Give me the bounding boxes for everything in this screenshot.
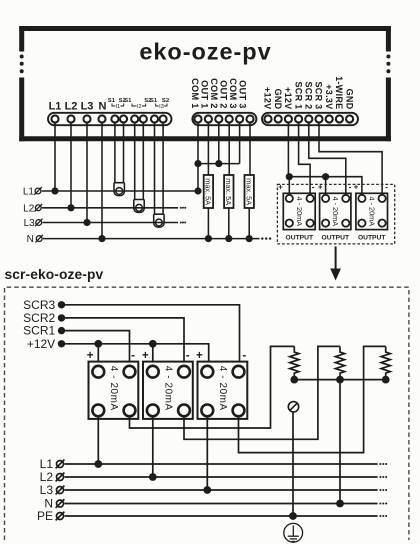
svg-text:L2: L2 bbox=[23, 203, 35, 214]
svg-text:max. 5A: max. 5A bbox=[224, 178, 233, 205]
svg-text:+3.3V: +3.3V bbox=[324, 84, 334, 109]
svg-text:COM 3: COM 3 bbox=[228, 78, 238, 109]
wire phase line L3 bbox=[42, 222, 178, 224]
wire +12V to module B2 + bbox=[152, 344, 154, 372]
dashed box scr board bbox=[5, 287, 409, 540]
svg-text:S1: S1 bbox=[124, 98, 132, 104]
X3 terminals bbox=[264, 115, 353, 122]
X2 terminals bbox=[194, 115, 253, 122]
svg-text:GND: GND bbox=[344, 89, 354, 110]
svg-text:4 - 20mA: 4 - 20mA bbox=[331, 196, 340, 226]
current transformer CT1 bbox=[114, 183, 124, 196]
wire COM bus bbox=[198, 163, 240, 165]
svg-text:I2: I2 bbox=[137, 104, 142, 110]
svg-text:max. 5A: max. 5A bbox=[245, 178, 254, 205]
wire SCR2 to module B2 - bbox=[62, 318, 185, 372]
wire phase line L1 bbox=[42, 190, 198, 192]
wire SCR3 to module3 - bbox=[319, 122, 382, 198]
terminal strip X3 (power/SCR) bbox=[262, 113, 358, 125]
ground symbol bbox=[284, 523, 303, 542]
wire COM3 drop bbox=[239, 122, 241, 164]
svg-text:GND: GND bbox=[273, 89, 283, 110]
svg-text:PE: PE bbox=[37, 509, 53, 523]
fuse F3 max.5A bbox=[245, 175, 254, 208]
svg-text:SCR3: SCR3 bbox=[23, 298, 55, 312]
X1 terminals bbox=[51, 115, 166, 122]
current transformer CT2 bbox=[134, 200, 144, 213]
continuation dots bottom lines bbox=[379, 463, 387, 517]
wire fuse F2 to N bbox=[228, 208, 230, 239]
labels L1 L2 L3 N bbox=[49, 101, 107, 113]
svg-text:-: - bbox=[312, 183, 315, 192]
node L1 input bbox=[34, 187, 42, 195]
svg-text:+: + bbox=[354, 183, 359, 192]
wire L1 bottom line bbox=[65, 463, 378, 465]
junction dots resistor bus bbox=[290, 376, 389, 384]
svg-text:4 - 20mA: 4 - 20mA bbox=[162, 366, 173, 411]
labels S1 S2 bbox=[108, 98, 170, 104]
svg-text:SCR 3: SCR 3 bbox=[314, 81, 324, 109]
wire fuse F1 to N bbox=[207, 208, 209, 239]
svg-text:L3: L3 bbox=[40, 483, 54, 497]
svg-text:+: + bbox=[142, 350, 149, 362]
wire B3 to L3 bbox=[206, 416, 208, 490]
wire SCR3 to module B3 - bbox=[62, 305, 240, 372]
wire B2 out to resistor R2 bbox=[184, 346, 340, 439]
svg-text:SCR 1: SCR 1 bbox=[293, 81, 303, 109]
svg-text:+: + bbox=[318, 183, 323, 192]
wire L1 terminal drop bbox=[54, 122, 56, 191]
junction dots on phase lines bbox=[51, 187, 105, 242]
svg-text:eko-oze-pv: eko-oze-pv bbox=[139, 39, 271, 65]
wire L3 terminal drop bbox=[86, 122, 88, 223]
wire B1 out to resistor R1 bbox=[130, 346, 295, 428]
wire N bottom line bbox=[65, 503, 378, 505]
svg-text:L1: L1 bbox=[23, 187, 35, 198]
svg-text:OUT 3: OUT 3 bbox=[238, 80, 248, 109]
X2 vertical labels bbox=[190, 78, 248, 109]
wire L3 bottom line bbox=[65, 489, 378, 491]
wire N terminal drop bbox=[101, 122, 103, 239]
svg-text:-: - bbox=[242, 350, 246, 362]
output module M1 bbox=[283, 193, 315, 229]
svg-text:OUTPUT: OUTPUT bbox=[286, 235, 314, 242]
wire resistor bus to N bbox=[339, 380, 341, 504]
svg-text:+: + bbox=[196, 350, 203, 362]
module B2 4-20mA bbox=[143, 362, 193, 419]
dashed box OUTPUT modules bbox=[277, 184, 394, 244]
svg-text:OUTPUT: OUTPUT bbox=[358, 235, 386, 242]
fuse F1 max.5A bbox=[204, 175, 213, 208]
resistor R1 bbox=[290, 346, 299, 379]
junction dots +12V bus bbox=[286, 173, 330, 180]
svg-text:SCR 2: SCR 2 bbox=[304, 81, 314, 109]
wire L2 terminal drop bbox=[70, 122, 72, 208]
svg-text:OUTPUT: OUTPUT bbox=[322, 235, 350, 242]
wire S1/S2 drops CT2 bbox=[135, 122, 144, 200]
svg-text:4 - 20mA: 4 - 20mA bbox=[367, 196, 376, 226]
svg-text:4 - 20mA: 4 - 20mA bbox=[108, 366, 119, 411]
wire OUT2 to fuse F2 bbox=[228, 122, 230, 175]
svg-text:L3: L3 bbox=[81, 101, 94, 113]
wire fuse F3 to N bbox=[248, 208, 250, 239]
junction dots bottom lines bbox=[94, 460, 344, 520]
junction dots +12V bus bbox=[94, 340, 156, 348]
wire earth screw to PE bbox=[292, 412, 294, 516]
terminal strip X2 (COM/OUT) bbox=[192, 113, 256, 125]
wire OUT3 to fuse F3 bbox=[249, 122, 251, 175]
svg-text:COM 1: COM 1 bbox=[190, 78, 200, 109]
N continuation dots bbox=[261, 237, 271, 239]
svg-text:4 - 20mA: 4 - 20mA bbox=[295, 196, 304, 226]
svg-text:+12V: +12V bbox=[283, 87, 293, 109]
wire +12V to module2 + bbox=[325, 177, 327, 199]
left edge continuation dots bbox=[20, 55, 24, 74]
svg-text:L1: L1 bbox=[49, 101, 62, 113]
arrow to scr board bbox=[335, 246, 337, 271]
resistor R3 bbox=[381, 346, 390, 379]
svg-text:N: N bbox=[27, 234, 34, 245]
wire +12V drop and bus bbox=[288, 122, 362, 198]
wire phase line L2 bbox=[42, 207, 178, 209]
wire COM2 drop bbox=[218, 122, 220, 164]
svg-text:-: - bbox=[131, 350, 135, 362]
svg-text:1-WIRE: 1-WIRE bbox=[334, 76, 344, 109]
device outline eko-oze-pv bbox=[19, 26, 391, 141]
L2 continuation dots bbox=[180, 207, 186, 209]
wire +12V to module B1 + bbox=[97, 344, 99, 372]
svg-text:+: + bbox=[87, 350, 94, 362]
svg-text:OUT 2: OUT 2 bbox=[219, 80, 229, 109]
svg-text:L2: L2 bbox=[65, 101, 78, 113]
earth screw symbol bbox=[288, 402, 298, 412]
wire B2 to L2 bbox=[152, 416, 154, 477]
svg-text:COM 2: COM 2 bbox=[209, 78, 219, 109]
svg-text:S1: S1 bbox=[150, 98, 158, 104]
junction dots fuses to N bbox=[205, 235, 253, 242]
wire +12V bus to module B3 + bbox=[62, 344, 209, 372]
L3 continuation dots bbox=[180, 222, 186, 224]
node L2 input bbox=[35, 204, 43, 212]
svg-text:L2: L2 bbox=[40, 470, 54, 484]
wire +12V to module1 + bbox=[288, 177, 290, 199]
svg-text:SCR1: SCR1 bbox=[23, 324, 55, 338]
svg-text:L1: L1 bbox=[40, 457, 54, 471]
wire SCR2 to module2 - bbox=[309, 122, 346, 198]
node N input bbox=[35, 235, 43, 243]
svg-text:+: + bbox=[278, 183, 283, 192]
wire COM1 drop to L1 bbox=[197, 122, 199, 191]
bracket I3 bbox=[156, 104, 167, 107]
module B3 4-20mA bbox=[198, 362, 248, 419]
svg-text:OUT 1: OUT 1 bbox=[200, 80, 210, 109]
wire OUT1 to fuse F1 bbox=[207, 122, 209, 175]
node L3 input bbox=[35, 219, 43, 227]
wire SCR1 to module1 - bbox=[299, 122, 311, 198]
wire S1/S2 drops CT3 bbox=[155, 122, 164, 214]
module B1 4-20mA bbox=[89, 362, 139, 419]
svg-text:4 - 20mA: 4 - 20mA bbox=[217, 366, 228, 411]
wire L2 bottom line bbox=[65, 476, 378, 478]
svg-text:-: - bbox=[186, 350, 190, 362]
svg-text:I1: I1 bbox=[115, 104, 120, 110]
wire S1/S2 drops CT1 bbox=[115, 122, 124, 183]
output module M3 bbox=[356, 193, 388, 229]
fuse F2 max.5A bbox=[224, 175, 233, 208]
svg-text:I3: I3 bbox=[159, 104, 164, 110]
current transformer CT3 bbox=[154, 214, 164, 227]
resistor R2 bbox=[335, 346, 344, 379]
X3 vertical labels bbox=[263, 76, 355, 110]
svg-text:N: N bbox=[99, 101, 107, 113]
wire SCR1 to module B1 - bbox=[62, 331, 130, 372]
bracket I1 bbox=[112, 104, 124, 107]
output module M2 bbox=[320, 193, 351, 229]
terminal strip X1 (L1 L2 L3 N S1..S2) bbox=[48, 113, 172, 125]
svg-text:-: - bbox=[349, 183, 352, 192]
junction dots COM bus bbox=[194, 160, 222, 195]
wire PE bottom line bbox=[65, 515, 378, 517]
bracket I2 bbox=[132, 104, 146, 107]
wire B1 to L1 bbox=[97, 416, 99, 464]
svg-text:-: - bbox=[385, 183, 388, 192]
svg-text:+12V: +12V bbox=[27, 337, 55, 351]
wire neutral line N bbox=[43, 238, 260, 240]
svg-text:max. 5A: max. 5A bbox=[204, 178, 213, 205]
wire resistor bus bbox=[294, 379, 385, 381]
wire B3 out to resistor R3 bbox=[239, 346, 386, 452]
svg-text:scr-eko-oze-pv: scr-eko-oze-pv bbox=[5, 267, 104, 282]
right edge continuation dots bbox=[386, 55, 390, 74]
svg-text:+12V: +12V bbox=[263, 87, 273, 109]
svg-text:L3: L3 bbox=[24, 218, 36, 229]
